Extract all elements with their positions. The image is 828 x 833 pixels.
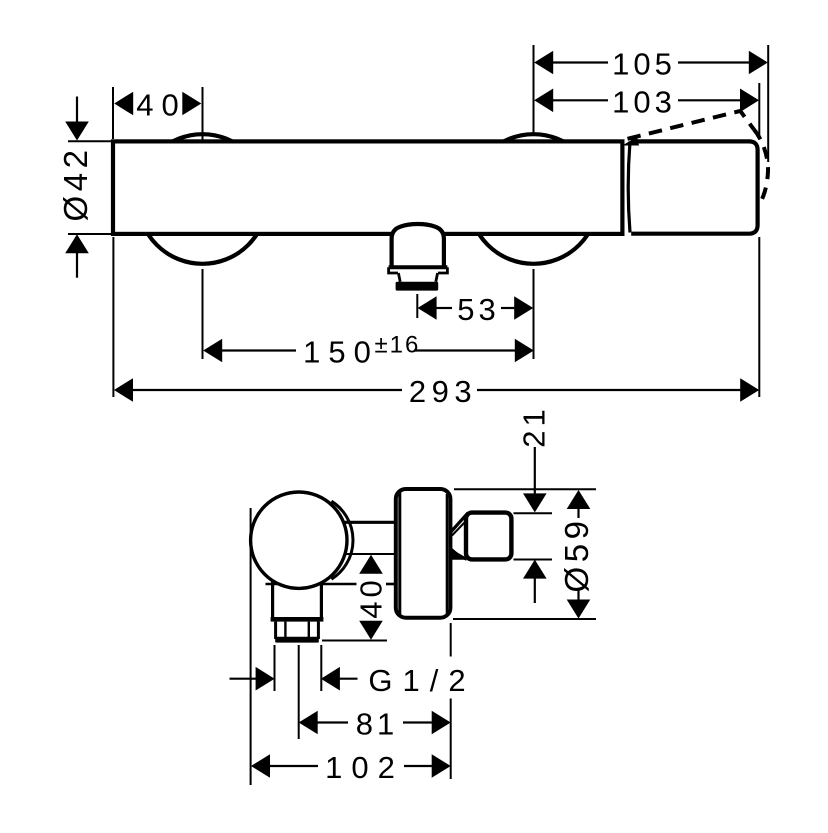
knob neck upper inner bbox=[452, 523, 465, 536]
escutcheon rim arc bbox=[331, 501, 353, 579]
ext G12 left bbox=[274, 645, 276, 691]
lever knob bbox=[466, 513, 511, 560]
dim 105 bbox=[552, 61, 608, 63]
dim G 1/2 bbox=[230, 678, 258, 680]
svg-text:150: 150 bbox=[303, 335, 379, 370]
pipe top line bbox=[343, 521, 397, 524]
outlet hose nipple bbox=[396, 282, 439, 291]
ext line 53/150 right bbox=[533, 269, 535, 359]
down tube right wall bbox=[320, 560, 323, 618]
outlet collar line bbox=[389, 265, 448, 269]
hose nut left bbox=[274, 622, 277, 639]
hose nut bottom cap bbox=[275, 637, 319, 643]
body disc bbox=[396, 489, 451, 618]
ext line 40 left bbox=[112, 87, 114, 139]
down tube left wall bbox=[271, 560, 274, 618]
svg-text:±16: ±16 bbox=[375, 332, 421, 359]
knob neck lower bbox=[451, 551, 467, 560]
ext 81 left (tube centre) bbox=[298, 645, 300, 739]
ext line 105/103 left bbox=[533, 45, 535, 136]
handle body fill bbox=[631, 141, 757, 233]
valve joint curve bbox=[628, 142, 630, 233]
ext line 293 right bbox=[758, 237, 760, 397]
dim 102 bbox=[270, 765, 318, 767]
svg-text:293: 293 bbox=[409, 374, 477, 409]
ext line dia42 bottom bbox=[68, 233, 111, 235]
hose nut right bbox=[317, 622, 320, 639]
dim 53 bbox=[436, 307, 452, 309]
mixer bar body bbox=[113, 141, 622, 234]
body disc inner edge right bbox=[446, 494, 449, 614]
right escutcheon circle bbox=[469, 134, 599, 264]
dim dia42 arrows and tails bbox=[76, 97, 78, 124]
body disc inner edge left bbox=[398, 492, 401, 616]
outlet neck left bbox=[398, 273, 400, 282]
dim 150 +-16 bbox=[222, 349, 296, 351]
ext disc bottom bbox=[453, 618, 596, 620]
dim 103 bbox=[552, 99, 608, 101]
ext 40 side bottom bbox=[322, 640, 387, 642]
lever corner wedge bbox=[623, 137, 640, 146]
svg-text:40: 40 bbox=[136, 88, 186, 123]
ext line 40 right bbox=[202, 87, 204, 140]
svg-text:Ø42: Ø42 bbox=[57, 146, 94, 222]
ext G12 right bbox=[320, 645, 322, 691]
svg-text:102: 102 bbox=[325, 750, 404, 785]
dim 293 bbox=[133, 389, 402, 391]
handle body outline bbox=[631, 141, 757, 233]
outlet collar right step bbox=[438, 267, 447, 273]
dim dia59 bbox=[577, 507, 579, 518]
outlet dome bbox=[392, 224, 444, 269]
hose nut inner left bbox=[284, 622, 286, 637]
ext line 53 left bbox=[416, 294, 418, 318]
ext knob bottom bbox=[514, 559, 553, 561]
ext 102 left bbox=[250, 508, 252, 785]
svg-text:81: 81 bbox=[356, 707, 398, 742]
svg-text:40: 40 bbox=[354, 576, 389, 618]
dim 40 side bbox=[359, 555, 383, 574]
ext line 103 right bbox=[758, 83, 760, 139]
hose nut inner right bbox=[308, 622, 310, 637]
svg-text:G1/2: G1/2 bbox=[368, 663, 475, 698]
ext disc top bbox=[454, 488, 596, 490]
tube bottom cap bbox=[271, 617, 324, 622]
svg-text:21: 21 bbox=[517, 405, 552, 447]
ext line 105 right bbox=[767, 45, 769, 162]
outlet collar left step bbox=[389, 267, 398, 273]
wall escutcheon circle bbox=[251, 492, 347, 588]
dashed lever swing arc bbox=[754, 129, 768, 204]
svg-text:53: 53 bbox=[457, 292, 499, 327]
svg-text:103: 103 bbox=[612, 85, 676, 120]
dim 21 bbox=[534, 447, 536, 495]
dim 81 bbox=[318, 721, 349, 723]
flange line bbox=[266, 583, 357, 586]
knob neck lower fill bbox=[452, 548, 466, 560]
dashed raised lever line bbox=[628, 111, 754, 139]
outlet neck right bbox=[436, 273, 438, 282]
ext line dia42 top bbox=[68, 140, 111, 142]
svg-text:105: 105 bbox=[612, 47, 676, 82]
ext line 293 left bbox=[112, 237, 114, 397]
ext 81/102 right bbox=[450, 623, 452, 657]
dim 40 arrows bbox=[114, 92, 133, 116]
pipe bottom thin line bbox=[344, 553, 397, 555]
knob neck upper bbox=[451, 513, 468, 532]
svg-text:Ø59: Ø59 bbox=[558, 517, 595, 593]
left escutcheon circle bbox=[138, 134, 268, 264]
ext knob top bbox=[514, 512, 553, 514]
ext line 150 left bbox=[202, 269, 204, 359]
